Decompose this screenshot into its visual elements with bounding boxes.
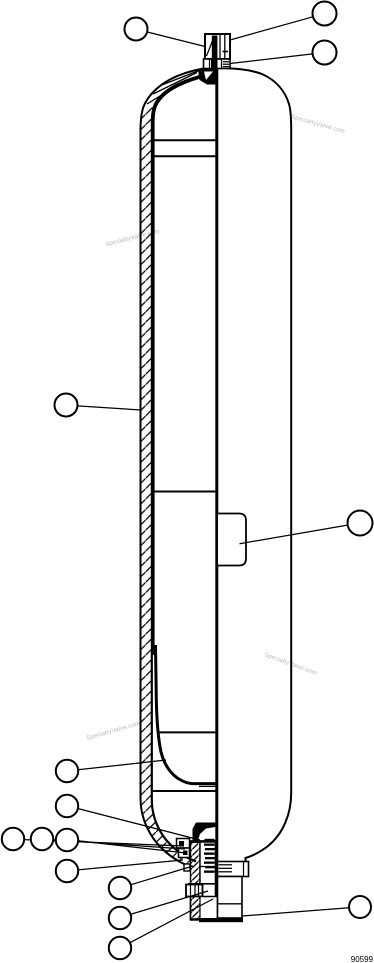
valve inner line 2 bbox=[224, 34, 226, 59]
leader C bbox=[230, 54, 313, 64]
callout circle A bbox=[125, 18, 148, 41]
shell hatched wall band (left, sectioned) bbox=[141, 107, 197, 867]
leader D bbox=[77, 406, 141, 410]
fitting part line 2 bbox=[188, 883, 216, 885]
leader M bbox=[130, 891, 208, 914]
callout circle L bbox=[109, 877, 131, 899]
nut line 2 bbox=[194, 885, 196, 897]
spring coils bbox=[204, 839, 215, 873]
flange right inner vline bbox=[243, 862, 245, 877]
callout circle O bbox=[349, 896, 371, 918]
leader B bbox=[230, 17, 313, 40]
bladder separated curve bbox=[156, 645, 216, 784]
valve inner line 1 bbox=[219, 34, 221, 59]
valve body U1 bbox=[205, 34, 230, 59]
leader K bbox=[78, 860, 183, 870]
nut line 3 bbox=[198, 885, 200, 897]
base right divider bbox=[218, 903, 243, 905]
neck boss dark bbox=[199, 69, 219, 85]
leader J bbox=[78, 841, 186, 853]
callout circle G bbox=[56, 795, 78, 817]
leader L bbox=[131, 866, 194, 885]
band line top 1 bbox=[153, 139, 217, 141]
shoulder hatch long lines bbox=[147, 80, 186, 104]
dome outer right bbox=[228, 68, 292, 864]
valve flange bbox=[204, 59, 231, 69]
flange ticks bbox=[223, 61, 229, 63]
port boss right bbox=[218, 514, 246, 566]
svg-text:90599: 90599 bbox=[351, 955, 374, 963]
callout circle J bbox=[56, 829, 78, 851]
callout circle B bbox=[313, 2, 337, 26]
base bottom thick bbox=[199, 918, 243, 922]
shell inner thick line (bladder against wall) bbox=[153, 75, 207, 655]
callout circle D bbox=[55, 394, 78, 417]
leader A bbox=[147, 32, 205, 47]
base right block bbox=[218, 877, 243, 919]
flange line left bbox=[209, 59, 211, 69]
bladder inner second line bbox=[199, 785, 216, 787]
nut bbox=[186, 885, 203, 897]
line y732 bbox=[158, 731, 216, 733]
flange line right bbox=[221, 59, 223, 69]
leader I bbox=[53, 840, 185, 849]
band line top 2 bbox=[153, 155, 217, 157]
line y791 bbox=[152, 790, 216, 792]
callout circle M bbox=[109, 907, 131, 929]
callout circle I bbox=[31, 828, 53, 850]
center tube bbox=[215, 69, 218, 923]
washer small bit bbox=[184, 864, 190, 871]
fitting hatched column bbox=[191, 842, 201, 920]
valve hatch diagonal bbox=[207, 37, 215, 56]
flange thread ticks bbox=[219, 864, 233, 866]
valve stem dark bbox=[212, 36, 218, 59]
leader F bbox=[78, 760, 166, 770]
shell inner line lower bbox=[152, 655, 196, 862]
leader H bbox=[24, 840, 184, 846]
neck boss white notch bbox=[204, 72, 213, 81]
washer stack left bbox=[177, 839, 190, 849]
fitting top line bbox=[186, 840, 216, 843]
valve tick bbox=[223, 51, 229, 53]
flange dark center bbox=[211, 59, 218, 69]
leader G bbox=[78, 809, 200, 841]
flange right bbox=[218, 862, 249, 877]
weld line middle bbox=[154, 491, 216, 493]
shell outer line bbox=[141, 69, 204, 867]
leader O bbox=[243, 908, 350, 916]
callout circle C bbox=[313, 41, 337, 65]
callout circle N bbox=[109, 937, 131, 959]
leader E bbox=[240, 525, 349, 544]
callout circle E bbox=[348, 511, 373, 536]
base left hatch bbox=[191, 897, 201, 920]
leader N bbox=[130, 899, 213, 943]
callout circle H bbox=[2, 828, 24, 850]
callout circle F bbox=[56, 760, 78, 782]
bottom fitting: duck bill clamp bbox=[193, 823, 216, 842]
callout circle K bbox=[56, 860, 78, 882]
base left block bbox=[191, 897, 218, 920]
nut line 1 bbox=[190, 885, 192, 897]
fitting part line 1 bbox=[200, 866, 216, 868]
fitting inner column bbox=[200, 842, 215, 920]
